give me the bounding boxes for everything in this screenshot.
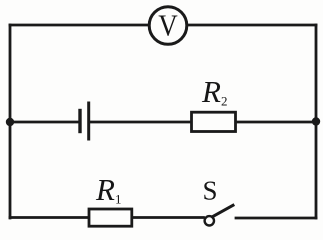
battery BT1 long plate	[87, 103, 90, 139]
svg-text:S: S	[203, 176, 218, 206]
switch S lever arm	[213, 205, 233, 216]
wire right vertical	[315, 25, 318, 218]
voltmeter V1 circle	[149, 7, 187, 45]
wire middle-right (R2 to node)	[237, 121, 316, 124]
node junction left	[6, 118, 14, 126]
node junction right	[312, 117, 320, 125]
svg-text:R1: R1	[95, 172, 121, 207]
svg-text:R2: R2	[201, 74, 227, 109]
wire middle-left (node to battery)	[10, 121, 78, 124]
resistor R2 body	[192, 112, 236, 131]
wire middle (battery to R2)	[90, 121, 190, 124]
wire top-left segment	[10, 24, 149, 27]
svg-text:V: V	[158, 7, 178, 42]
resistor R1 body	[89, 209, 132, 226]
wire bottom-right segment	[236, 217, 316, 220]
battery BT1 short plate	[78, 111, 81, 132]
wire top-right segment	[188, 24, 317, 27]
wire bottom-mid (R1 to switch)	[133, 216, 204, 219]
wire bottom-left (to R1)	[10, 216, 88, 219]
switch S pivot circle	[205, 216, 214, 225]
wire left vertical	[9, 25, 12, 218]
